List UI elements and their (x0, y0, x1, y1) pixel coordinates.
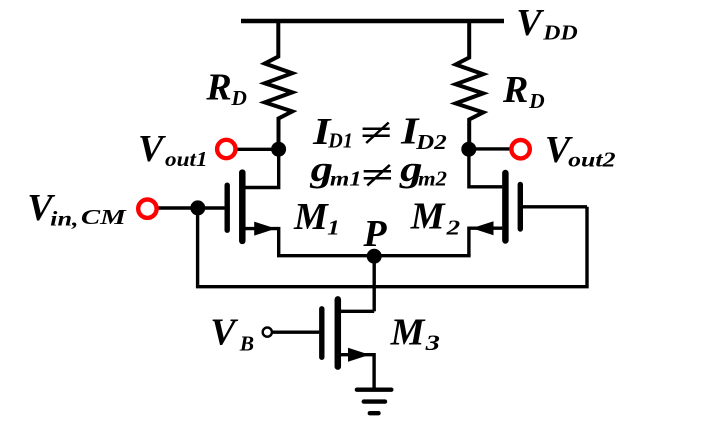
svg-text:m2: m2 (418, 166, 447, 190)
svg-text:D: D (230, 86, 247, 110)
svg-text:1: 1 (327, 215, 340, 239)
svg-text:M: M (293, 196, 329, 238)
svg-text:B: B (239, 331, 254, 355)
svg-text:V: V (516, 2, 544, 44)
svg-text:M: M (410, 195, 446, 237)
svg-text:R: R (205, 67, 231, 109)
svg-text:V: V (138, 128, 166, 170)
svg-text:2: 2 (445, 216, 460, 240)
svg-text:DD: DD (542, 20, 578, 44)
svg-text:3: 3 (424, 330, 440, 355)
svg-text:P: P (362, 213, 387, 255)
svg-text:in,: in, (50, 207, 78, 231)
svg-text:R: R (502, 69, 528, 111)
svg-text:D: D (528, 89, 545, 113)
svg-text:M: M (390, 312, 426, 354)
svg-text:out2: out2 (568, 148, 616, 172)
svg-text:out1: out1 (165, 147, 208, 171)
svg-text:CM: CM (81, 205, 127, 229)
svg-text:V: V (210, 312, 238, 354)
svg-text:m1: m1 (330, 166, 362, 190)
